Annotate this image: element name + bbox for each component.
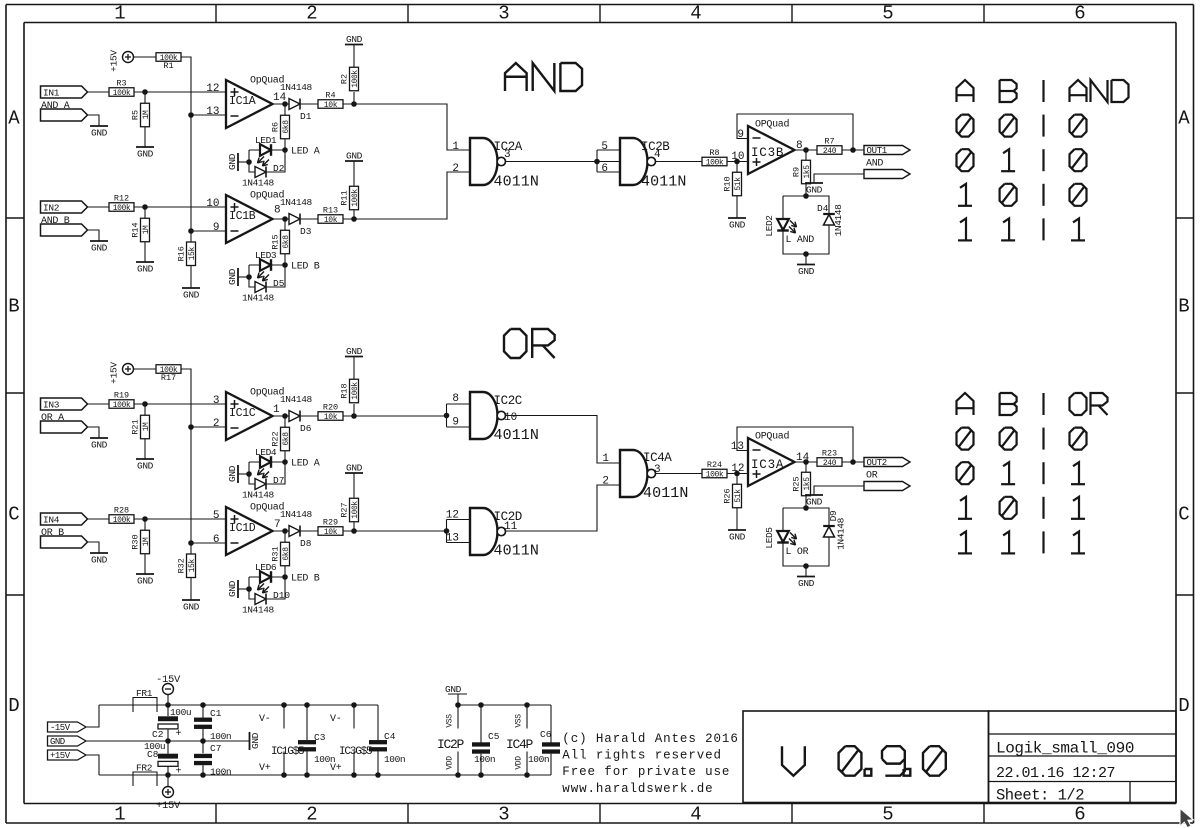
svg-text:IC1C: IC1C <box>229 407 256 420</box>
svg-text:GND: GND <box>806 497 823 508</box>
svg-text:IC1A: IC1A <box>229 95 256 108</box>
svg-text:C1: C1 <box>210 708 222 719</box>
svg-text:A: A <box>1178 108 1190 130</box>
svg-text:D3: D3 <box>300 226 312 237</box>
svg-text:GND: GND <box>91 555 108 566</box>
svg-text:1N4148: 1N4148 <box>242 490 275 501</box>
svg-text:5: 5 <box>882 804 893 826</box>
svg-text:OUT2: OUT2 <box>867 458 887 468</box>
svg-text:LED B: LED B <box>291 574 320 585</box>
svg-text:IC2C: IC2C <box>494 394 522 408</box>
svg-text:100n: 100n <box>474 754 495 765</box>
svg-text:VDD: VDD <box>446 756 455 770</box>
svg-text:VSS: VSS <box>515 714 524 728</box>
svg-text:12: 12 <box>731 463 744 475</box>
svg-text:IN2: IN2 <box>43 202 60 213</box>
svg-text:6: 6 <box>1074 804 1085 826</box>
svg-text:IN4: IN4 <box>43 514 60 525</box>
svg-text:LED B: LED B <box>291 262 320 273</box>
svg-text:B: B <box>1178 296 1189 318</box>
svg-text:R21: R21 <box>131 419 141 434</box>
svg-text:IN1: IN1 <box>43 87 60 98</box>
svg-text:4: 4 <box>654 149 661 161</box>
svg-text:C3: C3 <box>314 732 326 743</box>
svg-text:V-: V- <box>330 714 341 725</box>
svg-text:GND: GND <box>137 264 154 275</box>
svg-text:LED6: LED6 <box>255 562 277 573</box>
svg-text:100n: 100n <box>384 754 405 765</box>
svg-text:IN3: IN3 <box>43 399 60 410</box>
svg-text:10: 10 <box>731 151 744 163</box>
svg-text:4011N: 4011N <box>641 174 687 191</box>
svg-text:R3: R3 <box>116 79 126 89</box>
svg-text:1M: 1M <box>142 225 151 234</box>
svg-text:6k8: 6k8 <box>282 235 291 249</box>
svg-text:C2: C2 <box>152 729 164 740</box>
svg-text:2: 2 <box>306 804 317 826</box>
svg-text:100n: 100n <box>528 754 549 765</box>
svg-text:100n: 100n <box>210 767 231 778</box>
svg-text:GND: GND <box>445 684 462 695</box>
svg-text:2: 2 <box>213 418 220 430</box>
svg-text:IC1G$5: IC1G$5 <box>271 746 304 758</box>
svg-text:15k: 15k <box>188 247 197 261</box>
svg-text:100k: 100k <box>351 382 360 400</box>
svg-text:GND: GND <box>729 532 746 543</box>
svg-text:R6: R6 <box>271 122 281 132</box>
svg-text:GND: GND <box>806 185 823 196</box>
svg-text:GND: GND <box>729 220 746 231</box>
svg-text:IC3A: IC3A <box>751 458 784 472</box>
svg-text:5: 5 <box>213 510 220 522</box>
svg-text:1k5: 1k5 <box>803 477 812 491</box>
svg-text:1N4148: 1N4148 <box>280 82 313 93</box>
svg-text:5: 5 <box>882 3 893 25</box>
svg-text:GND: GND <box>91 243 108 254</box>
svg-text:R5: R5 <box>131 110 141 120</box>
svg-text:D8: D8 <box>300 538 312 549</box>
svg-text:1: 1 <box>114 3 125 25</box>
svg-text:R25: R25 <box>792 476 802 491</box>
svg-text:R32: R32 <box>177 558 187 573</box>
svg-text:GND: GND <box>183 290 200 301</box>
svg-text:GND: GND <box>798 266 815 277</box>
svg-text:5: 5 <box>601 141 608 153</box>
svg-text:9: 9 <box>737 129 744 141</box>
svg-text:1N4148: 1N4148 <box>242 178 275 189</box>
svg-text:R23: R23 <box>822 449 837 459</box>
svg-text:+15V: +15V <box>156 800 181 812</box>
svg-text:R10: R10 <box>723 176 733 191</box>
svg-text:IC2P: IC2P <box>437 737 465 752</box>
svg-text:C8: C8 <box>147 749 159 760</box>
svg-text:4011N: 4011N <box>494 427 540 444</box>
svg-text:R8: R8 <box>709 148 719 158</box>
svg-text:R29: R29 <box>323 518 338 528</box>
svg-text:R27: R27 <box>340 502 350 517</box>
svg-text:1N4148: 1N4148 <box>242 293 275 304</box>
svg-text:IC4P: IC4P <box>506 737 534 752</box>
svg-text:100k: 100k <box>706 159 724 168</box>
svg-text:GND: GND <box>91 128 108 139</box>
svg-text:10k: 10k <box>324 413 338 422</box>
svg-text:13: 13 <box>206 106 219 118</box>
svg-text:100k: 100k <box>113 401 131 410</box>
svg-text:10: 10 <box>206 198 219 210</box>
svg-text:GND: GND <box>250 732 261 749</box>
svg-text:V+: V+ <box>259 763 271 774</box>
svg-text:GND: GND <box>346 462 363 473</box>
svg-text:L OR: L OR <box>786 547 809 558</box>
svg-text:6: 6 <box>601 163 608 175</box>
svg-text:6k8: 6k8 <box>282 432 291 446</box>
svg-text:GND: GND <box>227 268 238 285</box>
svg-text:100k: 100k <box>113 89 131 98</box>
svg-text:GND: GND <box>50 737 65 747</box>
svg-text:LED A: LED A <box>291 147 320 158</box>
svg-text:R19: R19 <box>114 391 129 401</box>
svg-text:R16: R16 <box>177 246 187 261</box>
svg-text:C: C <box>8 504 19 526</box>
svg-text:1M: 1M <box>142 422 151 431</box>
svg-text:6k8: 6k8 <box>282 547 291 561</box>
svg-text:IC1B: IC1B <box>229 210 256 223</box>
svg-text:240: 240 <box>823 147 837 156</box>
svg-text:1: 1 <box>452 141 459 153</box>
svg-text:GND: GND <box>137 576 154 587</box>
svg-text:D: D <box>8 695 19 717</box>
svg-text:(c) Harald Antes 2016: (c) Harald Antes 2016 <box>562 732 738 746</box>
svg-text:OUT1: OUT1 <box>867 146 887 156</box>
svg-text:LED1: LED1 <box>255 135 277 146</box>
svg-text:1k5: 1k5 <box>803 165 812 179</box>
svg-text:R17: R17 <box>161 373 176 383</box>
svg-text:6k8: 6k8 <box>282 120 291 134</box>
svg-text:3: 3 <box>504 149 511 161</box>
svg-text:D1: D1 <box>300 111 312 122</box>
svg-text:15k: 15k <box>188 559 197 573</box>
svg-text:R26: R26 <box>723 488 733 503</box>
svg-text:6: 6 <box>1074 3 1085 25</box>
svg-text:GND: GND <box>137 149 154 160</box>
svg-text:+15V: +15V <box>50 751 71 761</box>
svg-text:3: 3 <box>654 464 661 476</box>
svg-text:1N4148: 1N4148 <box>833 204 844 237</box>
svg-text:D7: D7 <box>273 475 284 486</box>
svg-text:12: 12 <box>206 83 219 95</box>
svg-text:IC3G$5: IC3G$5 <box>339 746 372 758</box>
svg-text:4: 4 <box>690 3 701 25</box>
svg-text:10: 10 <box>504 412 517 424</box>
svg-text:GND: GND <box>346 346 363 357</box>
svg-text:C7: C7 <box>210 743 221 754</box>
svg-text:GND: GND <box>183 602 200 613</box>
svg-text:GND: GND <box>346 150 363 161</box>
svg-text:2: 2 <box>452 163 459 175</box>
svg-text:D2: D2 <box>273 163 285 174</box>
svg-text:C6: C6 <box>540 729 552 740</box>
svg-text:LED5: LED5 <box>764 527 775 549</box>
svg-text:A: A <box>8 108 20 130</box>
svg-text:V+: V+ <box>330 763 342 774</box>
svg-text:C: C <box>1178 504 1189 526</box>
svg-text:LED4: LED4 <box>255 447 277 458</box>
svg-text:D10: D10 <box>273 590 290 601</box>
svg-text:GND: GND <box>227 465 238 482</box>
svg-text:R14: R14 <box>131 222 141 237</box>
svg-text:10k: 10k <box>324 528 338 537</box>
svg-text:100k: 100k <box>113 204 131 213</box>
svg-text:Logik_small_090: Logik_small_090 <box>996 740 1134 758</box>
svg-text:1N4148: 1N4148 <box>280 509 313 520</box>
svg-text:B: B <box>8 296 19 318</box>
svg-text:All rights reserved: All rights reserved <box>562 749 722 763</box>
svg-text:51k: 51k <box>734 177 743 191</box>
svg-text:100k: 100k <box>706 471 724 480</box>
svg-text:-15V: -15V <box>156 674 181 686</box>
svg-text:100u: 100u <box>170 707 191 718</box>
svg-text:9: 9 <box>213 222 220 234</box>
svg-text:13: 13 <box>731 441 744 453</box>
svg-text:51k: 51k <box>734 489 743 503</box>
svg-text:Free for private use: Free for private use <box>562 765 730 779</box>
svg-text:GND: GND <box>346 34 363 45</box>
svg-text:OR: OR <box>866 471 878 482</box>
svg-text:L AND: L AND <box>786 235 815 246</box>
svg-text:R12: R12 <box>114 194 129 204</box>
svg-text:100k: 100k <box>351 501 360 519</box>
svg-text:LED3: LED3 <box>255 250 277 261</box>
svg-text:+15V: +15V <box>109 362 120 384</box>
svg-text:1M: 1M <box>142 110 151 119</box>
svg-text:1N4148: 1N4148 <box>280 394 313 405</box>
svg-text:Sheet: 1/2: Sheet: 1/2 <box>996 787 1084 805</box>
svg-text:1N4148: 1N4148 <box>242 605 275 616</box>
svg-text:R28: R28 <box>114 506 129 516</box>
svg-text:7: 7 <box>274 519 281 531</box>
svg-text:AND: AND <box>866 159 883 170</box>
svg-text:IC3B: IC3B <box>751 146 784 160</box>
svg-text:6: 6 <box>213 534 220 546</box>
svg-text:1: 1 <box>273 404 280 416</box>
svg-text:OPQuad: OPQuad <box>755 119 790 131</box>
svg-text:R24: R24 <box>707 460 722 470</box>
svg-text:+: + <box>175 767 181 778</box>
svg-text:10k: 10k <box>324 101 338 110</box>
svg-text:3: 3 <box>498 3 509 25</box>
svg-text:R15: R15 <box>271 234 281 249</box>
svg-text:R2: R2 <box>340 74 350 84</box>
svg-text:240: 240 <box>823 459 837 468</box>
svg-text:VDD: VDD <box>515 756 524 770</box>
svg-text:1N4148: 1N4148 <box>280 197 313 208</box>
svg-text:4: 4 <box>690 804 701 826</box>
svg-text:C5: C5 <box>488 731 500 742</box>
svg-text:4011N: 4011N <box>494 543 540 560</box>
svg-text:100k: 100k <box>351 70 360 88</box>
svg-text:LED A: LED A <box>291 459 320 470</box>
svg-text:-15V: -15V <box>50 723 71 733</box>
svg-text:GND: GND <box>227 153 238 170</box>
svg-text:R7: R7 <box>824 137 834 147</box>
svg-text:GND: GND <box>91 440 108 451</box>
svg-text:R31: R31 <box>271 546 281 561</box>
svg-text:R13: R13 <box>323 206 338 216</box>
svg-text:LED2: LED2 <box>764 215 775 237</box>
svg-text:1: 1 <box>114 804 125 826</box>
svg-text:100n: 100n <box>210 731 231 742</box>
svg-text:+: + <box>175 729 181 740</box>
svg-text:100k: 100k <box>351 189 360 207</box>
svg-text:C4: C4 <box>384 731 396 742</box>
svg-text:IC1D: IC1D <box>229 522 256 535</box>
svg-text:R18: R18 <box>340 383 350 398</box>
svg-text:D: D <box>1178 695 1189 717</box>
svg-text:D4: D4 <box>817 203 829 214</box>
svg-text:R20: R20 <box>323 403 338 413</box>
svg-text:GND: GND <box>227 580 238 597</box>
svg-text:8: 8 <box>452 393 459 405</box>
svg-text:4011N: 4011N <box>643 485 689 502</box>
svg-text:OPQuad: OPQuad <box>755 431 790 443</box>
svg-text:1: 1 <box>602 453 609 465</box>
svg-text:1N4148: 1N4148 <box>836 517 847 550</box>
svg-text:3: 3 <box>213 395 220 407</box>
svg-text:2: 2 <box>602 476 609 488</box>
svg-text:D6: D6 <box>300 423 312 434</box>
svg-text:R11: R11 <box>340 190 350 205</box>
svg-text:R30: R30 <box>131 534 141 549</box>
svg-text:3: 3 <box>498 804 509 826</box>
svg-text:IC4A: IC4A <box>643 451 672 465</box>
svg-text:1M: 1M <box>142 537 151 546</box>
svg-text:100k: 100k <box>113 516 131 525</box>
svg-text:22.01.16 12:27: 22.01.16 12:27 <box>996 765 1115 782</box>
svg-text:4011N: 4011N <box>494 174 540 191</box>
svg-text:+15V: +15V <box>109 50 120 72</box>
svg-text:10k: 10k <box>324 216 338 225</box>
svg-text:www.haraldswerk.de: www.haraldswerk.de <box>562 782 713 796</box>
svg-text:R4: R4 <box>325 91 335 101</box>
svg-text:R9: R9 <box>792 167 802 177</box>
svg-text:VSS: VSS <box>446 714 455 728</box>
svg-text:R1: R1 <box>163 61 173 71</box>
svg-text:GND: GND <box>798 578 815 589</box>
svg-text:V-: V- <box>259 714 270 725</box>
svg-text:2: 2 <box>306 3 317 25</box>
svg-text:GND: GND <box>137 461 154 472</box>
svg-text:R22: R22 <box>271 431 281 446</box>
svg-text:D5: D5 <box>273 278 285 289</box>
